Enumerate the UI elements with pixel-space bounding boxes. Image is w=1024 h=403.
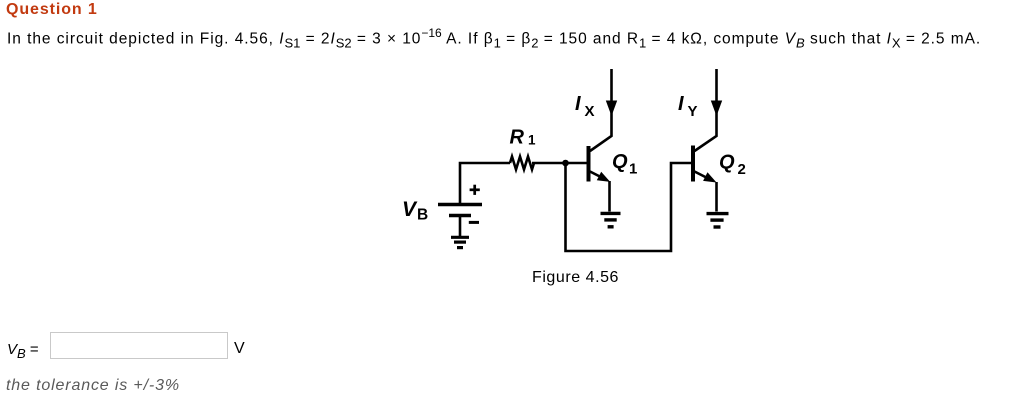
tolerance note xyxy=(6,377,180,395)
ground under battery xyxy=(451,237,469,247)
label Q2 xyxy=(719,152,746,179)
label R1 xyxy=(510,127,537,149)
Q2 emitter wire with arrow xyxy=(695,172,711,180)
battery VB bottom plate xyxy=(449,214,471,218)
circuit schematic (Figure 4.56) xyxy=(380,60,790,295)
ground under Q2 xyxy=(707,214,729,227)
node junction dot xyxy=(562,160,569,167)
svg-text:1: 1 xyxy=(528,133,536,148)
heading: Question 1 xyxy=(6,1,98,19)
Q2 collector wire xyxy=(695,69,717,151)
svg-text:V: V xyxy=(402,198,418,221)
unit V xyxy=(234,340,245,358)
svg-text:1: 1 xyxy=(629,161,637,178)
current arrow IX xyxy=(606,101,617,117)
wire resistor to Q1 base xyxy=(532,162,587,165)
battery minus sign xyxy=(469,221,479,224)
ground under Q1 xyxy=(601,213,621,226)
answer row: VB = [input] V xyxy=(7,341,39,361)
Q1 collector wire xyxy=(590,69,612,151)
svg-text:I: I xyxy=(575,93,581,115)
svg-text:R: R xyxy=(510,127,525,149)
battery VB top plate xyxy=(438,203,482,207)
answer input box xyxy=(50,332,228,359)
svg-text:B: B xyxy=(417,207,428,224)
wire battery top to resistor xyxy=(460,163,510,204)
current arrow IY xyxy=(711,101,722,117)
svg-text:Q: Q xyxy=(612,151,628,173)
svg-text:2: 2 xyxy=(738,161,746,178)
label IX xyxy=(575,93,595,120)
wire battery to ground xyxy=(459,217,462,236)
label IY xyxy=(678,93,698,120)
battery plus sign xyxy=(470,185,480,195)
svg-text:X: X xyxy=(585,103,595,120)
label Q1 xyxy=(612,151,637,178)
figure caption xyxy=(532,269,619,287)
transistor Q2 base bar xyxy=(691,146,695,182)
wire node down, bottom rail, up to Q2 base xyxy=(566,163,692,251)
Q1 emitter wire with arrow xyxy=(590,172,604,179)
label VB xyxy=(402,198,428,224)
body problem text xyxy=(7,26,981,51)
transistor Q1 base bar xyxy=(587,146,591,182)
svg-text:Y: Y xyxy=(688,103,698,120)
svg-text:I: I xyxy=(678,93,684,115)
svg-text:Q: Q xyxy=(719,152,735,174)
resistor R1 xyxy=(510,157,534,170)
